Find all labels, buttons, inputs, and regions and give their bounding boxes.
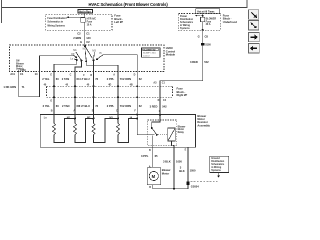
wire label 3 BLK 1050 (coil ground)	[163, 159, 182, 163]
wire label 3 RED 542 (row 2)	[150, 105, 168, 109]
wire: switch Hi contact across to 2 ORN drop	[97, 55, 137, 72]
switch position label M2	[83, 48, 87, 51]
label Fuse Block - Left I/P	[114, 14, 123, 24]
svg-text:Schematics in: Schematics in	[47, 21, 63, 24]
blower motor symbol	[147, 168, 161, 185]
pin letters row 1	[50, 74, 135, 78]
wire 2 ORN	[136, 72, 138, 115]
svg-text:C463: C463	[20, 69, 26, 72]
arrow to reference text	[66, 16, 85, 18]
svg-text:542: 542	[204, 60, 209, 64]
svg-text:Hot at All Times: Hot at All Times	[197, 10, 215, 13]
title: HVAC Schematics (Front Blower Controls)	[89, 2, 169, 7]
svg-text:A: A	[73, 110, 75, 113]
junction dots at box top	[136, 114, 161, 116]
svg-text:Right I/P: Right I/P	[177, 93, 188, 97]
button zoom diagonal 1	[249, 10, 259, 19]
fuse value label BLOWER Fuse 40 A	[206, 17, 217, 26]
resistor assembly pin letters	[51, 110, 161, 113]
svg-text:BLOWER SW: BLOWER SW	[143, 49, 155, 51]
svg-text:4D: 4D	[108, 83, 111, 86]
svg-text:HVAC Schematics (Front Blower: HVAC Schematics (Front Blower Controls)	[89, 2, 169, 7]
pass-through connector (Fuse Block - Right I/P) dashed row A	[47, 85, 173, 87]
svg-text:2 TAN: 2 TAN	[62, 77, 70, 81]
wire 2 TAN	[74, 72, 76, 115]
arrow from reference box to ground line	[217, 173, 220, 178]
svg-text:65: 65	[155, 154, 158, 158]
wire label 2 LT BLU 72 (row 2)	[79, 104, 99, 108]
motor ground pin letter	[149, 186, 151, 189]
pane left border	[0, 0, 2, 23]
switch position label M1	[73, 49, 77, 52]
label Off / Blower Motor Switch	[16, 60, 24, 71]
svg-text:62: 62	[139, 77, 142, 81]
resistor R3 with ladder wiring	[92, 115, 119, 143]
svg-text:C1: C1	[20, 72, 24, 76]
wire label 2 YEL 60 (row 2)	[43, 104, 60, 108]
svg-text:M3: M3	[92, 49, 96, 52]
wire 2 PPL	[117, 72, 119, 115]
wire 3 RED 542 from splice down and across to resistor assembly	[160, 45, 203, 114]
svg-text:G: G	[50, 99, 52, 102]
label-to-contact ticks	[74, 51, 95, 61]
wire 1 DK GRN 71 U-jumper pin A11 to pin 14	[19, 72, 40, 97]
inner boxed label (control head part label)	[142, 48, 161, 58]
connector labels G | C8	[198, 35, 209, 39]
connector name label	[20, 69, 26, 72]
wire: switch M1 contact to pin C (2 TAN)	[75, 61, 81, 72]
svg-text:1050: 1050	[190, 169, 196, 173]
pass-through connector end caps	[47, 86, 173, 97]
wire label 2 PPL 70 (row 1)	[107, 77, 123, 81]
svg-text:Underhood: Underhood	[223, 20, 237, 24]
svg-text:B: B	[90, 74, 92, 77]
pin letter below pass-through	[50, 99, 166, 102]
svg-text:Fuse: Fuse	[177, 86, 184, 90]
wire label 2 ORN 62 (row 1)	[123, 77, 142, 81]
svg-text:1050: 1050	[176, 159, 182, 163]
svg-text:3 RED: 3 RED	[150, 105, 158, 109]
svg-text:2 YEL: 2 YEL	[42, 77, 50, 81]
wire label 3 RED 542	[190, 60, 209, 64]
relay NO contact feed from 3 RED	[152, 115, 160, 128]
svg-text:40 A: 40 A	[206, 23, 211, 26]
dashed box fuse block underhood	[178, 14, 220, 31]
svg-text:3 PPL: 3 PPL	[141, 154, 149, 158]
svg-text:542: 542	[162, 105, 167, 109]
resistor R2 with ladder wiring	[73, 115, 94, 143]
svg-text:2 PPL: 2 PPL	[107, 77, 115, 81]
label Fuse Block - Right I/P	[177, 86, 188, 97]
svg-text:C2: C2	[77, 32, 81, 36]
wire hot-at-all-times into fuse, junction dot	[202, 13, 204, 17]
switch position label Off	[71, 53, 75, 56]
switch feed junction dot on dashed box top	[84, 45, 86, 47]
wire: switch M2 contact joins LT BLU drop	[86, 61, 118, 71]
svg-text:Wiring Systems: Wiring Systems	[47, 24, 65, 27]
svg-text:C1: C1	[86, 32, 90, 36]
svg-text:2 ORN: 2 ORN	[123, 104, 131, 108]
svg-text:30 AMP 1 BLU: 30 AMP 1 BLU	[143, 52, 157, 55]
switch contact dots	[75, 56, 98, 62]
ground splice/terminal	[186, 182, 189, 186]
label box HOT IN RUN	[78, 10, 92, 14]
svg-text:D: D	[134, 74, 136, 77]
svg-text:HVAC: HVAC	[166, 46, 173, 50]
svg-text:G: G	[80, 40, 82, 44]
svg-text:A11: A11	[10, 72, 15, 76]
coil ground wire exits box (3 BLK 1050)	[172, 141, 175, 189]
svg-text:Systems: Systems	[180, 27, 190, 30]
fuse value label HTR A/C Fuse 10 A	[87, 18, 97, 27]
connector labels C2 | C1	[77, 32, 90, 36]
switch wiper arm	[85, 46, 92, 58]
svg-text:Control: Control	[143, 54, 150, 57]
pane right corner border	[246, 0, 248, 8]
fuse HTR A/C 10A	[81, 18, 85, 23]
svg-text:2 PPL: 2 PPL	[107, 104, 115, 108]
wire label 2 PPL 70 (row 2)	[107, 104, 123, 108]
label Blower Motor	[162, 168, 171, 175]
relay contacts and arm	[151, 127, 158, 136]
dashed box fuse block left I/P	[46, 14, 112, 30]
pin labels A11 C1 and 14	[10, 72, 38, 76]
svg-text:Blower: Blower	[162, 168, 171, 172]
motor pin letter A	[149, 165, 151, 168]
wire label 2 TAN 63 (row 1)	[62, 77, 80, 81]
svg-text:Module: Module	[166, 53, 176, 57]
svg-text:Relay: Relay	[178, 131, 185, 134]
resistor R4 with ladder wiring	[116, 115, 138, 143]
button prev page (left arrow)	[249, 44, 260, 53]
svg-text:62: 62	[139, 104, 142, 108]
relay dashed box	[148, 120, 177, 146]
ground distribution reference box	[210, 156, 229, 172]
connector labels G | C2	[80, 40, 90, 44]
svg-text:M1: M1	[73, 49, 77, 52]
wire label 3 BLK 1050 (stacked)	[179, 166, 196, 173]
cavity labels above pass-through connector	[44, 82, 166, 87]
wire: switch M3 contact to pin (LT BLU)	[93, 60, 95, 71]
svg-text:G2004: G2004	[191, 185, 199, 189]
svg-text:C2: C2	[86, 40, 90, 44]
svg-text:4B: 4B	[130, 83, 133, 86]
box bottom pin letters	[149, 149, 187, 152]
svg-text:1 DK GRN: 1 DK GRN	[3, 85, 16, 89]
svg-text:LT BLU: LT BLU	[80, 77, 89, 81]
svg-text:M2: M2	[83, 48, 87, 51]
svg-text:Systems: Systems	[211, 169, 221, 172]
button next page (right arrow)	[249, 32, 260, 41]
wire label 2 TAN 63 (row 2)	[62, 104, 80, 108]
svg-text:2 ORN: 2 ORN	[123, 77, 131, 81]
wire label 3 PPL 65	[141, 154, 158, 158]
wire fuse down to switch feed	[84, 22, 86, 46]
svg-text:3 BLK: 3 BLK	[163, 159, 171, 163]
switch position label M3	[92, 49, 96, 52]
title underline / pane top border	[1, 7, 247, 9]
svg-text:2 BRN: 2 BRN	[73, 36, 81, 40]
dashed box HVAC control module	[10, 45, 165, 72]
wire label 1 DK GRN 71	[3, 85, 25, 89]
wire 2 YEL	[53, 72, 55, 115]
ground name G2004	[191, 185, 199, 189]
fuse BLOWER 40A	[201, 17, 205, 21]
label Fuse Block - Underhood	[223, 13, 237, 23]
svg-text:A: A	[113, 74, 115, 77]
svg-text:Control: Control	[166, 49, 176, 53]
svg-text:Fuse Distribution: Fuse Distribution	[47, 17, 67, 20]
svg-text:BLK: BLK	[179, 169, 185, 173]
svg-text:B: B	[149, 149, 151, 152]
label box Hot at All Times	[196, 9, 220, 13]
resistor R1 with ladder wiring	[52, 115, 76, 143]
ground reference dashed line	[191, 180, 218, 182]
svg-text:2 TAN: 2 TAN	[62, 104, 70, 108]
svg-text:Block -: Block -	[177, 90, 186, 94]
svg-text:140: 140	[86, 36, 91, 40]
wire Hi tap into relay common	[137, 115, 154, 135]
switch position label Hi	[99, 52, 102, 55]
svg-text:D: D	[158, 99, 160, 102]
svg-text:C: C	[70, 74, 72, 77]
pin ticks on connector row	[19, 70, 138, 73]
wire label 2 BRN 140	[73, 36, 91, 40]
wire fuse to splice, junction dot	[202, 22, 204, 43]
svg-text:2 YEL: 2 YEL	[43, 104, 51, 108]
wire: switch Lo contact to pin E (2 YEL)	[54, 60, 77, 72]
label Blower Motor Resistor Assembly	[197, 114, 210, 128]
svg-text:M: M	[152, 174, 156, 179]
svg-text:Hi: Hi	[130, 117, 133, 120]
tap labels inside box	[44, 117, 133, 120]
svg-text:10 A: 10 A	[87, 23, 92, 26]
wire LT BLU	[93, 72, 95, 115]
junction dots on pass-through rows	[53, 85, 138, 98]
svg-text:14: 14	[35, 72, 38, 76]
label Blower Motor Relay	[178, 125, 186, 134]
svg-text:2 LT BLU: 2 LT BLU	[79, 104, 90, 108]
svg-text:Left I/P: Left I/P	[114, 20, 123, 24]
relay coil	[168, 128, 176, 141]
button zoom diagonal 2	[249, 21, 259, 30]
relay output to blower motor	[152, 136, 154, 167]
svg-text:71: 71	[22, 85, 25, 89]
resistor assembly box	[40, 115, 195, 148]
svg-text:Assembly: Assembly	[197, 123, 210, 127]
wire label 2 YEL 60 (row 1)	[42, 77, 59, 81]
svg-text:G: G	[198, 35, 200, 39]
svg-text:60: 60	[56, 77, 59, 81]
relay mechanical link (dashed)	[158, 134, 168, 136]
wire label LT BLU 72 (row 1)	[80, 77, 98, 81]
svg-text:C8: C8	[205, 35, 209, 39]
motor ground wire	[153, 185, 188, 190]
frame ground wire from assembly	[187, 147, 189, 182]
arrow to power distribution text	[195, 15, 201, 17]
svg-text:B: B	[149, 186, 151, 189]
reference text: Power Distribution Schematics in Wiring Systems	[180, 15, 194, 30]
reference text: Fuse Distribution Schematics in Wiring Systems	[47, 17, 67, 27]
svg-text:B: B	[51, 110, 53, 113]
pass-through connector dashed row B	[47, 96, 173, 98]
svg-text:G: G	[159, 110, 161, 113]
svg-text:Motor: Motor	[162, 172, 169, 176]
splice S108	[201, 43, 211, 47]
svg-text:C: C	[116, 110, 118, 113]
svg-text:60: 60	[56, 104, 59, 108]
wire label 2 ORN 62 (row 2)	[123, 104, 142, 108]
svg-text:3 RED: 3 RED	[190, 60, 198, 64]
label HVAC Control Module	[166, 46, 176, 57]
wire from Hot In Run to fuse	[84, 13, 86, 18]
wire: switch Off contact to pin 14	[40, 56, 77, 72]
switch position label Lo	[70, 57, 73, 60]
svg-text:S108: S108	[205, 43, 211, 46]
